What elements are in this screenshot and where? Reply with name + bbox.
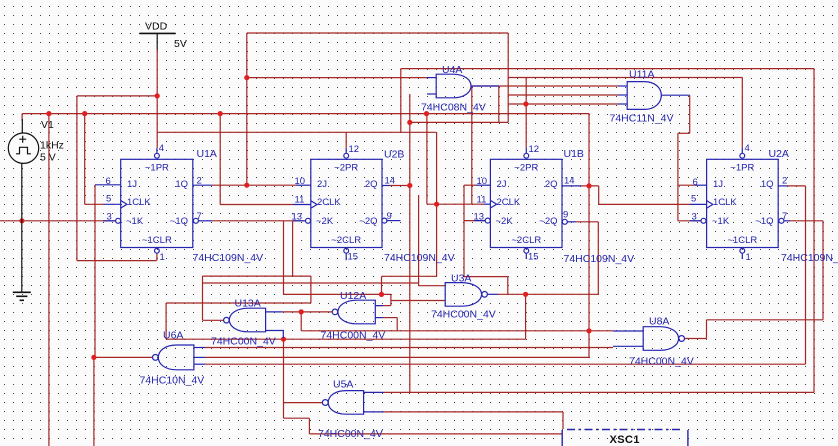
svg-text:4: 4	[745, 143, 750, 154]
svg-text:~1CLR: ~1CLR	[142, 235, 172, 246]
svg-text:VDD: VDD	[145, 21, 168, 33]
svg-text:74HC00N_4V: 74HC00N_4V	[211, 336, 276, 348]
svg-text:15: 15	[528, 252, 539, 263]
svg-text:U3A: U3A	[451, 273, 471, 285]
svg-text:U12A: U12A	[340, 290, 366, 302]
svg-text:74HC00N_4V: 74HC00N_4V	[321, 330, 386, 342]
svg-text:1kHz: 1kHz	[40, 140, 64, 152]
svg-text:~1Q: ~1Q	[170, 216, 188, 227]
svg-text:74HC109N_4V: 74HC109N_4V	[193, 252, 264, 264]
svg-text:3: 3	[107, 212, 112, 223]
svg-text:7: 7	[782, 211, 787, 222]
svg-text:1CLK: 1CLK	[713, 197, 737, 208]
svg-text:14: 14	[385, 176, 396, 187]
svg-text:~1Q: ~1Q	[755, 216, 773, 227]
svg-text:2: 2	[197, 176, 202, 187]
svg-text:U6A: U6A	[163, 330, 183, 342]
svg-text:74HC00N_4V: 74HC00N_4V	[318, 428, 383, 440]
svg-text:9: 9	[387, 211, 392, 222]
svg-text:~2K: ~2K	[316, 216, 334, 227]
svg-text:74HC109N_4V: 74HC109N_4V	[564, 253, 635, 265]
svg-text:1Q: 1Q	[761, 179, 774, 190]
svg-text:2J: 2J	[497, 179, 507, 190]
svg-text:5: 5	[691, 194, 696, 205]
svg-text:6: 6	[693, 177, 698, 188]
svg-text:~2CLR: ~2CLR	[331, 235, 361, 246]
svg-text:74HC08N_4V: 74HC08N_4V	[421, 102, 486, 114]
svg-text:5 V: 5 V	[40, 152, 56, 164]
svg-text:6: 6	[106, 176, 111, 187]
svg-text:12: 12	[529, 144, 540, 155]
svg-text:~1PR: ~1PR	[145, 163, 169, 174]
svg-text:U11A: U11A	[629, 69, 655, 81]
svg-text:2Q: 2Q	[545, 179, 558, 190]
svg-text:~2PR: ~2PR	[514, 163, 538, 174]
svg-text:~2PR: ~2PR	[334, 163, 358, 174]
svg-text:74HC109N_4V: 74HC109N_4V	[384, 252, 455, 264]
svg-text:74HC00N_4V: 74HC00N_4V	[629, 356, 694, 368]
svg-text:~1K: ~1K	[712, 216, 730, 227]
svg-text:10: 10	[477, 176, 488, 187]
svg-text:74HC11N_4V: 74HC11N_4V	[610, 113, 674, 125]
svg-text:10: 10	[295, 176, 306, 187]
svg-text:U4A: U4A	[442, 64, 462, 76]
svg-text:1: 1	[160, 252, 165, 263]
svg-text:14: 14	[564, 176, 575, 187]
svg-text:~1CLR: ~1CLR	[727, 235, 757, 246]
svg-text:U1A: U1A	[197, 148, 217, 160]
svg-text:15: 15	[348, 252, 359, 263]
svg-text:13: 13	[474, 212, 485, 223]
svg-text:U1B: U1B	[564, 148, 584, 160]
svg-text:U8A: U8A	[649, 316, 669, 328]
svg-text:3: 3	[692, 212, 697, 223]
svg-text:4: 4	[159, 143, 164, 154]
svg-text:74HC00N_4V: 74HC00N_4V	[431, 309, 496, 321]
svg-text:V1: V1	[41, 119, 54, 131]
svg-text:11: 11	[477, 195, 487, 206]
svg-text:7: 7	[197, 211, 202, 222]
svg-text:11: 11	[295, 195, 305, 206]
svg-text:U5A: U5A	[333, 379, 353, 391]
svg-text:2CLK: 2CLK	[497, 197, 521, 208]
svg-text:U2B: U2B	[384, 149, 404, 161]
svg-text:5: 5	[106, 194, 111, 205]
svg-text:~2Q: ~2Q	[539, 216, 557, 227]
svg-text:74HC109N_4V: 74HC109N_4V	[781, 252, 838, 264]
svg-text:~2K: ~2K	[496, 216, 514, 227]
svg-text:2: 2	[782, 176, 787, 187]
svg-text:XSC1: XSC1	[610, 434, 640, 446]
svg-text:~1K: ~1K	[126, 216, 144, 227]
svg-text:9: 9	[563, 210, 568, 221]
svg-text:~2Q: ~2Q	[359, 216, 377, 227]
svg-text:U13A: U13A	[235, 298, 261, 310]
svg-text:2CLK: 2CLK	[317, 197, 341, 208]
svg-text:1J: 1J	[127, 179, 137, 190]
svg-text:1CLK: 1CLK	[127, 197, 151, 208]
svg-text:U2A: U2A	[769, 148, 789, 160]
svg-text:~2CLR: ~2CLR	[511, 235, 541, 246]
svg-text:13: 13	[292, 212, 303, 223]
svg-text:74HC10N_4V: 74HC10N_4V	[140, 375, 205, 387]
svg-text:2Q: 2Q	[365, 179, 378, 190]
svg-text:12: 12	[349, 144, 360, 155]
svg-text:5V: 5V	[174, 38, 187, 50]
svg-text:1Q: 1Q	[175, 179, 188, 190]
svg-text:~1PR: ~1PR	[730, 163, 754, 174]
svg-text:1J: 1J	[713, 179, 723, 190]
svg-text:1: 1	[746, 252, 751, 263]
svg-text:2J: 2J	[317, 179, 327, 190]
